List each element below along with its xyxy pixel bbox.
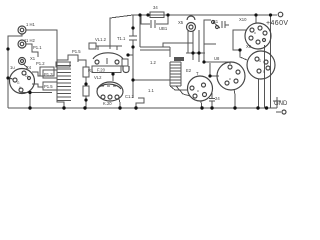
svg-text:G: G [17, 81, 20, 85]
svg-text:o: o [197, 89, 199, 93]
svg-text:P1.5: P1.5 [44, 84, 53, 89]
svg-text:P1.5: P1.5 [72, 49, 81, 54]
svg-text:P1.2: P1.2 [36, 61, 45, 66]
svg-text:1.2: 1.2 [150, 60, 156, 65]
svg-text:R1: R1 [88, 68, 94, 73]
svg-text:o: o [254, 31, 256, 35]
svg-text:U8: U8 [214, 56, 220, 61]
svg-text:P1.3: P1.3 [44, 72, 53, 77]
svg-text:X9: X9 [246, 44, 252, 49]
svg-text:X1: X1 [30, 56, 36, 61]
svg-text:X5: X5 [178, 20, 184, 25]
svg-text:C1.2: C1.2 [125, 94, 135, 99]
svg-text:UB1: UB1 [159, 26, 168, 31]
svg-text:K.20: K.20 [103, 101, 112, 106]
svg-text:T: T [196, 71, 199, 76]
svg-text:GND: GND [274, 101, 288, 107]
svg-text:11 H2: 11 H2 [24, 38, 36, 43]
svg-text:+460V: +460V [266, 20, 288, 27]
svg-text:VL1.2: VL1.2 [95, 37, 107, 42]
svg-text:24: 24 [215, 96, 220, 101]
svg-text:P1.1: P1.1 [33, 45, 42, 50]
svg-text:S1: S1 [213, 19, 219, 24]
svg-text:T1.1: T1.1 [117, 36, 126, 41]
svg-text:S: S [259, 59, 261, 63]
svg-text:1.1: 1.1 [148, 88, 154, 93]
svg-text:X10: X10 [239, 17, 247, 22]
svg-text:E2: E2 [186, 68, 192, 73]
svg-text:1u: 1u [10, 65, 15, 70]
svg-text:34: 34 [153, 5, 158, 10]
svg-text:VL2: VL2 [94, 75, 102, 80]
svg-text:o: o [229, 77, 231, 81]
svg-text:F.20: F.20 [97, 68, 106, 73]
svg-text:S: S [263, 70, 265, 74]
svg-text:1 H1: 1 H1 [26, 22, 36, 27]
svg-text:X4: X4 [26, 65, 32, 70]
